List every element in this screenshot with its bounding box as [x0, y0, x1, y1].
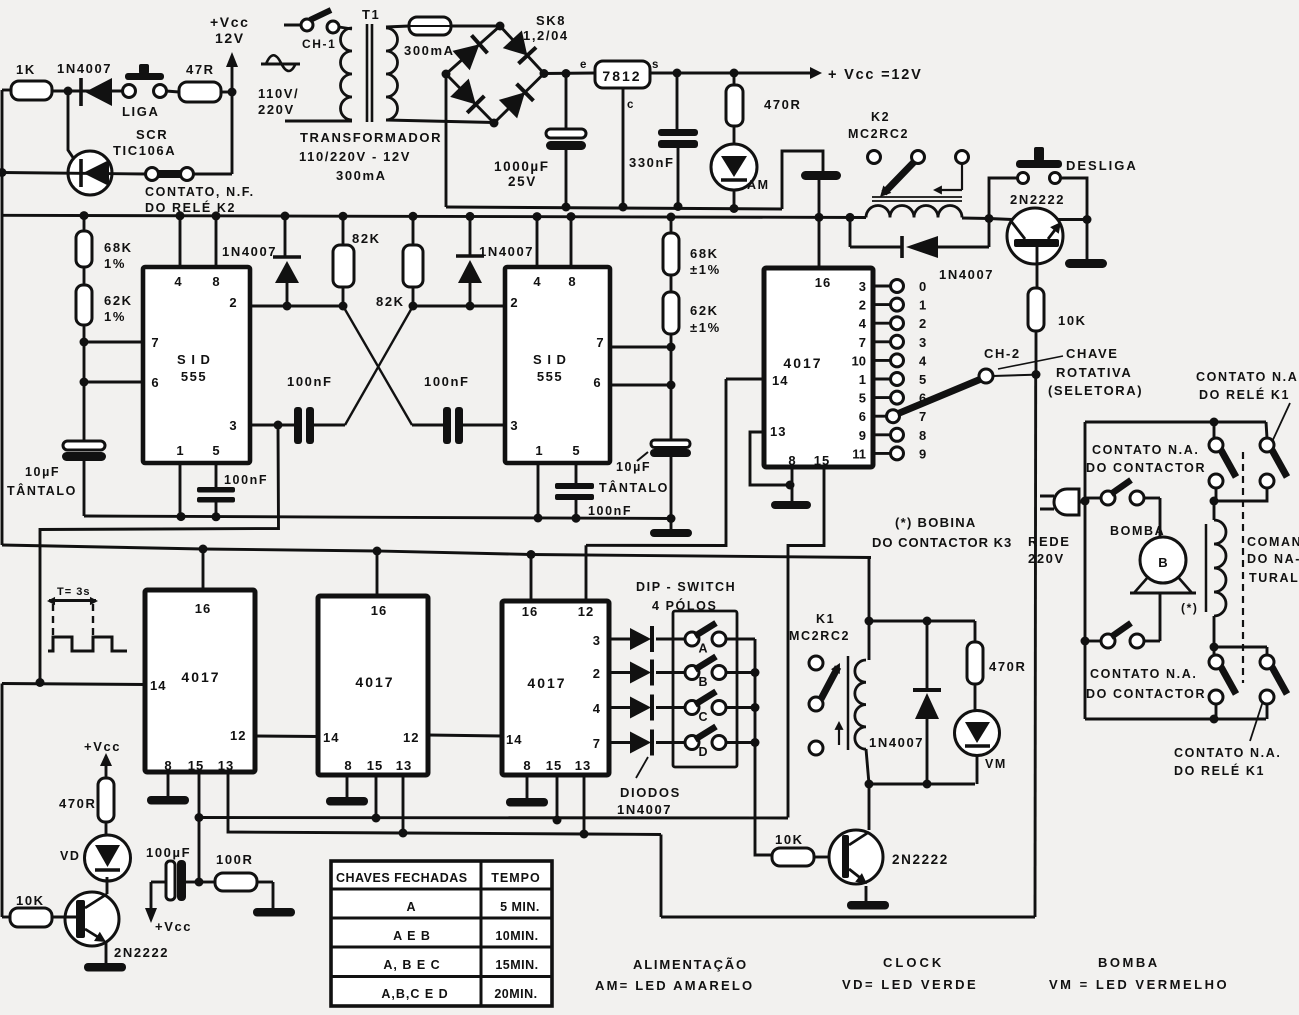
svg-text:1%: 1%: [104, 256, 126, 271]
svg-text:VD= LED VERDE: VD= LED VERDE: [842, 977, 978, 992]
svg-text:ALIMENTAÇÃO: ALIMENTAÇÃO: [633, 957, 748, 972]
svg-text:7: 7: [919, 409, 926, 424]
svg-text:LIGA: LIGA: [122, 104, 159, 119]
svg-text:300mA: 300mA: [404, 43, 455, 58]
svg-text:62K: 62K: [104, 293, 133, 308]
svg-text:7: 7: [859, 335, 866, 350]
svg-text:REDE: REDE: [1028, 534, 1071, 549]
svg-text:220V: 220V: [1028, 551, 1065, 566]
svg-text:T1: T1: [362, 7, 380, 22]
svg-text:CONTATO N.A.: CONTATO N.A.: [1092, 443, 1199, 457]
svg-text:TRANSFORMADOR: TRANSFORMADOR: [300, 130, 442, 145]
svg-text:100nF: 100nF: [287, 374, 333, 389]
svg-text:DESLIGA: DESLIGA: [1066, 158, 1138, 173]
svg-text:220V: 220V: [258, 102, 295, 117]
svg-text:1N4007: 1N4007: [939, 267, 994, 282]
svg-text:2: 2: [919, 316, 926, 331]
svg-text:25V: 25V: [508, 174, 537, 189]
svg-text:S I D: S I D: [177, 352, 211, 367]
svg-text:100nF: 100nF: [588, 504, 632, 518]
svg-text:DIODOS: DIODOS: [620, 785, 681, 800]
svg-text:BOMBA: BOMBA: [1110, 524, 1165, 538]
svg-text:20MIN.: 20MIN.: [494, 987, 537, 1001]
svg-text:7812: 7812: [602, 68, 641, 84]
svg-text:±1%: ±1%: [690, 262, 721, 277]
svg-text:10K: 10K: [775, 832, 804, 847]
svg-text:4: 4: [533, 274, 541, 289]
svg-text:CHAVE: CHAVE: [1066, 346, 1119, 361]
svg-text:4017: 4017: [181, 669, 220, 685]
svg-text:8: 8: [788, 453, 795, 468]
svg-text:6: 6: [151, 375, 158, 390]
svg-text:K1: K1: [816, 612, 835, 626]
svg-text:15: 15: [814, 453, 830, 468]
svg-text:10µF: 10µF: [616, 460, 651, 474]
svg-text:SK8: SK8: [536, 13, 566, 28]
svg-text:CH-1: CH-1: [302, 37, 336, 51]
svg-text:3: 3: [859, 279, 866, 294]
svg-text:100µF: 100µF: [146, 845, 191, 860]
svg-text:MC2RC2: MC2RC2: [789, 629, 850, 643]
svg-text:A E B: A E B: [393, 929, 431, 943]
svg-text:AM= LED AMARELO: AM= LED AMARELO: [595, 978, 754, 993]
svg-text:470R: 470R: [764, 97, 801, 112]
svg-text:10MIN.: 10MIN.: [495, 929, 538, 943]
svg-text:16: 16: [371, 603, 387, 618]
svg-text:8: 8: [568, 274, 575, 289]
svg-text:(SELETORA): (SELETORA): [1048, 383, 1143, 398]
svg-text:7: 7: [151, 335, 158, 350]
svg-text:12V: 12V: [215, 30, 245, 46]
svg-text:4017: 4017: [783, 355, 822, 371]
svg-text:DIP - SWITCH: DIP - SWITCH: [636, 580, 736, 594]
svg-text:CH-2: CH-2: [984, 346, 1021, 361]
svg-text:16: 16: [195, 601, 211, 616]
svg-text:82K: 82K: [376, 294, 405, 309]
svg-text:1K: 1K: [16, 62, 36, 77]
svg-text:2: 2: [229, 295, 236, 310]
svg-text:12: 12: [230, 728, 246, 743]
svg-text:TÂNTALO: TÂNTALO: [599, 480, 669, 495]
svg-text:1N4007: 1N4007: [57, 61, 112, 76]
svg-text:470R: 470R: [59, 796, 96, 811]
svg-text:D: D: [698, 745, 707, 759]
svg-text:1,2/04: 1,2/04: [523, 28, 569, 43]
svg-text:8: 8: [523, 758, 530, 773]
svg-text:CLOCK: CLOCK: [883, 955, 944, 970]
svg-text:13: 13: [396, 758, 412, 773]
svg-text:10K: 10K: [1058, 313, 1087, 328]
svg-text:2: 2: [510, 295, 517, 310]
svg-text:2N2222: 2N2222: [892, 852, 949, 867]
svg-text:100nF: 100nF: [224, 473, 268, 487]
svg-text:8: 8: [919, 428, 926, 443]
svg-text:AM: AM: [747, 178, 770, 192]
svg-text:11: 11: [852, 446, 866, 461]
svg-text:47R: 47R: [186, 62, 215, 77]
svg-text:4 PÓLOS: 4 PÓLOS: [652, 598, 717, 613]
svg-text:1N4007: 1N4007: [869, 735, 924, 750]
svg-text:1: 1: [919, 298, 926, 313]
svg-text:A, B E C: A, B E C: [383, 958, 440, 972]
svg-text:100nF: 100nF: [424, 374, 470, 389]
svg-text:+Vcc: +Vcc: [210, 14, 250, 30]
svg-text:S I D: S I D: [533, 352, 567, 367]
svg-text:3: 3: [229, 418, 236, 433]
svg-text:A,B,C E D: A,B,C E D: [381, 987, 448, 1001]
svg-text:4: 4: [593, 701, 601, 716]
svg-text:BOMBA: BOMBA: [1098, 955, 1160, 970]
svg-text:A: A: [698, 642, 707, 656]
svg-text:DO RELÉ K1: DO RELÉ K1: [1174, 763, 1265, 778]
svg-text:1N4007: 1N4007: [222, 244, 277, 259]
svg-text:TEMPO: TEMPO: [491, 871, 540, 885]
svg-text:13: 13: [575, 758, 591, 773]
svg-text:1: 1: [535, 443, 542, 458]
svg-text:3: 3: [919, 335, 926, 350]
svg-text:1: 1: [176, 443, 183, 458]
svg-text:DO NA-: DO NA-: [1247, 552, 1299, 566]
svg-text:CONTATO N.A.: CONTATO N.A.: [1174, 746, 1281, 760]
svg-text:2N2222: 2N2222: [114, 945, 169, 960]
svg-text:DO RELÉ K2: DO RELÉ K2: [145, 200, 236, 215]
svg-text:DO RELÉ K1: DO RELÉ K1: [1199, 387, 1290, 402]
svg-text:8: 8: [212, 274, 219, 289]
svg-text:B: B: [1158, 555, 1167, 570]
svg-text:+Vcc: +Vcc: [84, 739, 121, 754]
svg-text:68K: 68K: [690, 246, 719, 261]
svg-text:7: 7: [596, 335, 603, 350]
svg-text:CONTATO N.A.: CONTATO N.A.: [1090, 667, 1197, 681]
svg-text:T= 3s: T= 3s: [57, 586, 90, 598]
svg-text:110/220V - 12V: 110/220V - 12V: [299, 149, 411, 164]
svg-text:DO CONTACTOR K3: DO CONTACTOR K3: [872, 535, 1012, 550]
svg-text:13: 13: [770, 424, 786, 439]
svg-text:TÂNTALO: TÂNTALO: [7, 483, 77, 498]
svg-text:CHAVES FECHADAS: CHAVES FECHADAS: [336, 871, 468, 885]
svg-text:1000µF: 1000µF: [494, 159, 550, 174]
svg-text:3: 3: [510, 418, 517, 433]
svg-text:±1%: ±1%: [690, 320, 721, 335]
svg-text:(*) BOBINA: (*) BOBINA: [895, 515, 977, 530]
svg-text:4: 4: [174, 274, 182, 289]
svg-text:82K: 82K: [352, 231, 381, 246]
svg-text:555: 555: [537, 369, 563, 384]
svg-text:(*): (*): [1181, 601, 1198, 615]
svg-text:SCR: SCR: [136, 127, 168, 142]
svg-text:ROTATIVA: ROTATIVA: [1056, 365, 1132, 380]
svg-text:14: 14: [772, 373, 788, 388]
svg-text:68K: 68K: [104, 240, 133, 255]
svg-text:CONTATO, N.F.: CONTATO, N.F.: [145, 185, 255, 199]
svg-text:1N4007: 1N4007: [479, 244, 534, 259]
svg-text:c: c: [627, 99, 634, 111]
svg-text:C: C: [698, 710, 707, 724]
svg-text:6: 6: [593, 375, 600, 390]
svg-text:2N2222: 2N2222: [1010, 192, 1065, 207]
svg-text:14: 14: [323, 730, 339, 745]
svg-text:12: 12: [403, 730, 419, 745]
svg-text:5: 5: [572, 443, 579, 458]
svg-text:DO CONTACTOR: DO CONTACTOR: [1086, 461, 1206, 475]
svg-text:4017: 4017: [355, 674, 394, 690]
svg-text:8: 8: [164, 758, 171, 773]
svg-text:0: 0: [919, 279, 926, 294]
svg-text:4017: 4017: [527, 675, 566, 691]
svg-text:7: 7: [593, 736, 600, 751]
svg-text:15: 15: [546, 758, 562, 773]
svg-text:e: e: [580, 59, 586, 71]
svg-text:10: 10: [852, 353, 866, 368]
svg-text:5: 5: [212, 443, 219, 458]
svg-text:4: 4: [859, 316, 867, 331]
svg-text:A: A: [406, 900, 415, 914]
svg-text:14: 14: [506, 732, 522, 747]
svg-text:62K: 62K: [690, 303, 719, 318]
svg-text:4: 4: [919, 353, 927, 368]
svg-text:TIC106A: TIC106A: [113, 143, 176, 158]
svg-text:9: 9: [919, 446, 926, 461]
svg-text:3: 3: [593, 633, 600, 648]
svg-text:14: 14: [150, 678, 166, 693]
svg-text:VM: VM: [985, 757, 1007, 771]
svg-text:15MIN.: 15MIN.: [495, 958, 538, 972]
svg-text:15: 15: [367, 758, 383, 773]
svg-text:330nF: 330nF: [629, 155, 675, 170]
svg-text:1: 1: [859, 372, 866, 387]
svg-text:+Vcc: +Vcc: [155, 919, 192, 934]
svg-text:5 MIN.: 5 MIN.: [500, 900, 540, 914]
svg-text:VM = LED VERMELHO: VM = LED VERMELHO: [1049, 977, 1229, 992]
svg-text:s: s: [652, 59, 658, 71]
svg-text:MC2RC2: MC2RC2: [848, 127, 909, 141]
svg-text:16: 16: [815, 275, 831, 290]
svg-text:13: 13: [218, 758, 234, 773]
svg-text:DO CONTACTOR: DO CONTACTOR: [1086, 687, 1206, 701]
svg-text:8: 8: [344, 758, 351, 773]
svg-text:10µF: 10µF: [25, 465, 60, 479]
svg-text:9: 9: [859, 428, 866, 443]
svg-text:1%: 1%: [104, 309, 126, 324]
svg-text:555: 555: [181, 369, 207, 384]
svg-text:16: 16: [522, 604, 538, 619]
svg-text:TURAL: TURAL: [1249, 571, 1299, 585]
svg-text:CONTATO N.A.: CONTATO N.A.: [1196, 370, 1299, 384]
svg-text:470R: 470R: [989, 659, 1026, 674]
svg-text:15: 15: [188, 758, 204, 773]
svg-text:+ Vcc =12V: + Vcc =12V: [828, 67, 923, 83]
svg-text:B: B: [698, 675, 707, 689]
svg-text:COMAN-: COMAN-: [1247, 535, 1299, 549]
svg-text:2: 2: [593, 666, 600, 681]
svg-text:K2: K2: [871, 110, 890, 124]
svg-text:5: 5: [859, 391, 866, 406]
svg-text:12: 12: [578, 604, 594, 619]
svg-text:6: 6: [859, 409, 866, 424]
svg-text:100R: 100R: [216, 852, 253, 867]
svg-text:VD: VD: [60, 849, 81, 863]
svg-text:5: 5: [919, 372, 926, 387]
svg-text:110V/: 110V/: [258, 86, 299, 101]
svg-text:1N4007: 1N4007: [617, 802, 672, 817]
svg-text:2: 2: [859, 298, 866, 313]
svg-text:10K: 10K: [16, 893, 45, 908]
svg-text:300mA: 300mA: [336, 168, 387, 183]
